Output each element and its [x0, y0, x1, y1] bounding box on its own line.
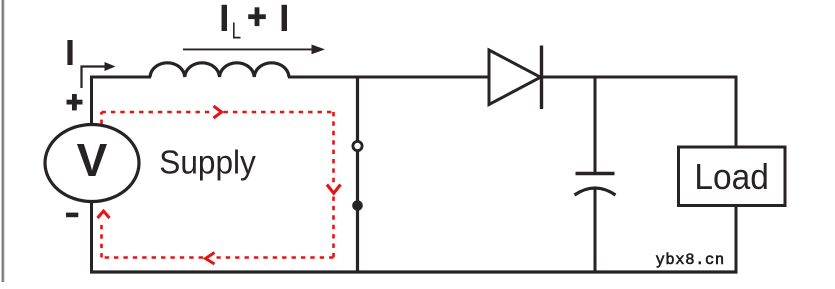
svg-text:L: L	[232, 19, 241, 44]
bottom return wire	[90, 270, 738, 273]
svg-text:V: V	[77, 134, 108, 186]
current label IL + I	[219, 0, 290, 44]
switch branch wire	[356, 77, 359, 272]
current label I (input current)	[65, 32, 75, 73]
diode cathode bar	[540, 46, 543, 110]
wire load bottom to ground rail	[735, 206, 738, 274]
red current loop dashed rectangle	[102, 112, 334, 258]
svg-text:Supply: Supply	[159, 144, 256, 181]
capacitor C top plate	[576, 172, 615, 175]
wire top-left corner from supply + terminal	[92, 77, 152, 125]
diode D (triangle)	[489, 50, 541, 105]
voltage source V label	[77, 134, 108, 186]
svg-text:ybx8.cn: ybx8.cn	[656, 251, 725, 269]
voltage source V (ellipse)	[45, 125, 139, 202]
bent arrow for input current I	[82, 62, 116, 88]
load label text	[694, 158, 768, 197]
inductor L	[150, 63, 289, 77]
wire supply - terminal to bottom rail	[90, 202, 93, 273]
capacitor branch upper wire	[594, 77, 597, 173]
svg-text:I: I	[65, 32, 75, 73]
watermark ybx8.cn	[656, 251, 725, 269]
capacitor C bottom curved plate	[575, 188, 616, 195]
arrow for inductor current direction	[183, 45, 325, 55]
switch open terminal (circle)	[353, 141, 362, 150]
red arrow up (left edge of loop)	[98, 211, 110, 218]
svg-text:Load: Load	[694, 158, 768, 197]
switch closed terminal (dot)	[352, 200, 363, 211]
svg-text:I: I	[279, 0, 290, 40]
wire inductor to diode anode	[288, 76, 489, 79]
load resistor box	[679, 147, 786, 206]
red arrow right (top edge of loop)	[214, 106, 222, 118]
wire diode to load top corner	[541, 77, 737, 147]
minus terminal symbol	[66, 213, 78, 218]
red arrow down (right edge of loop)	[327, 185, 341, 194]
red arrow left (bottom edge of loop)	[206, 253, 215, 265]
capacitor branch lower wire	[594, 189, 597, 273]
svg-text:I: I	[219, 0, 230, 40]
plus terminal symbol	[67, 94, 83, 110]
supply label text	[159, 144, 256, 181]
